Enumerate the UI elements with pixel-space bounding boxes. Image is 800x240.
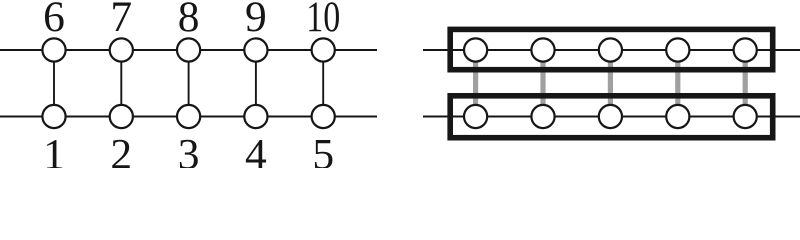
- node 6: [42, 38, 65, 61]
- svg-text:6: 6: [43, 0, 65, 41]
- node bottom-b: [531, 105, 554, 128]
- node 4: [244, 105, 267, 128]
- node top-a: [464, 38, 487, 61]
- node top-e: [734, 38, 757, 61]
- svg-text:9: 9: [245, 0, 267, 41]
- wire: bottom horizontal path through nodes 1-5: [0, 116, 377, 118]
- svg-text:8: 8: [178, 0, 200, 41]
- bundle edge d (gray rung): [675, 52, 680, 114]
- bundle edge b (gray rung): [540, 52, 545, 114]
- svg-text:1: 1: [43, 130, 65, 168]
- wire: top horizontal path through nodes 6-10: [0, 49, 377, 51]
- svg-text:3: 3: [178, 130, 200, 168]
- wire: bottom horizontal path (right): [423, 116, 800, 118]
- node bottom-c: [599, 105, 622, 128]
- node top-d: [666, 38, 689, 61]
- node bottom-d: [666, 105, 689, 128]
- wire: rung edge 3-8: [188, 50, 190, 117]
- bundle edge e (gray rung): [743, 52, 748, 114]
- node 5: [312, 105, 335, 128]
- super-node box: bottom bag: [450, 96, 773, 138]
- wire: rung edge 4-9: [255, 50, 257, 117]
- bundle edge c (gray rung): [608, 52, 613, 114]
- wire: top horizontal path (right): [423, 49, 800, 51]
- node bottom-a: [464, 105, 487, 128]
- wire: rung edge 1-6: [53, 50, 55, 117]
- node 3: [177, 105, 200, 128]
- node bottom-e: [734, 105, 757, 128]
- node 1: [42, 105, 65, 128]
- bundle edge a (gray rung): [473, 52, 478, 114]
- node top-c: [599, 38, 622, 61]
- svg-text:7: 7: [110, 0, 132, 41]
- node 7: [110, 38, 133, 61]
- wire: rung edge 2-7: [120, 50, 122, 117]
- node 8: [177, 38, 200, 61]
- super-node box: top bag: [450, 29, 773, 69]
- wire: rung edge 5-10: [322, 50, 324, 117]
- svg-text:2: 2: [110, 130, 132, 168]
- node 9: [244, 38, 267, 61]
- svg-text:4: 4: [245, 130, 267, 168]
- node 10: [312, 38, 335, 61]
- svg-text:10: 10: [306, 0, 340, 41]
- node top-b: [531, 38, 554, 61]
- node 2: [110, 105, 133, 128]
- svg-text:5: 5: [312, 130, 334, 168]
